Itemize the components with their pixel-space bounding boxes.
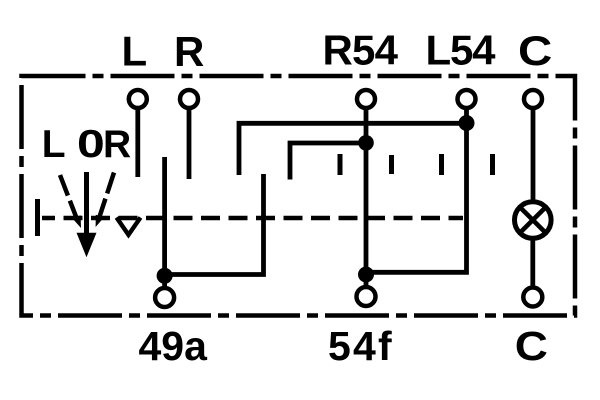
terminal R: [180, 90, 198, 179]
lever arrow R (dashed diagonal): [96, 173, 114, 228]
contact tick 1: [338, 154, 343, 175]
svg-text:L54: L54: [426, 27, 497, 74]
junction dot 49a: [157, 268, 173, 284]
detent notch v: [117, 218, 141, 235]
wire bridge finger from L54 (horizontal y=123): [239, 123, 467, 175]
junction dot 54f: [358, 267, 374, 283]
terminal C (top) with stem to lamp: [524, 90, 542, 202]
terminal L54 with stem, corner to 54f: [366, 90, 476, 272]
svg-text:L: L: [42, 123, 66, 166]
terminal 49a riser wire: [162, 157, 167, 288]
svg-text:C: C: [515, 324, 548, 369]
slider end-stop bar: [35, 199, 40, 236]
svg-text:49a: 49a: [139, 323, 209, 369]
terminal R54 with stem to 54f: [357, 90, 375, 287]
lever arrow 0 (solid, down): [77, 172, 97, 257]
wire lamp to C bottom: [530, 238, 535, 287]
svg-text:R54: R54: [323, 27, 399, 74]
contact tick 3: [439, 154, 444, 175]
terminal C (bottom): [523, 288, 542, 307]
terminal 54f: [357, 287, 376, 306]
junction dot R54: [358, 135, 374, 151]
svg-text:54f: 54f: [328, 323, 394, 369]
svg-text:L: L: [122, 28, 148, 75]
svg-text:R: R: [174, 28, 204, 75]
lamp E1: [515, 202, 552, 239]
enclosure dash-dot border: [22, 76, 576, 316]
slider dashed line (movable contact): [42, 216, 463, 221]
contact tick 2: [389, 155, 394, 174]
wire bridge finger from R54 (horizontal y=143): [290, 143, 366, 180]
terminal 49a: [155, 288, 174, 307]
svg-text:C: C: [518, 28, 552, 75]
terminal L: [129, 90, 147, 177]
lever arrow L (dashed diagonal): [60, 175, 81, 228]
label L 0 R (lever positions): [42, 122, 131, 166]
wire 49a right branch: [165, 174, 264, 275]
contact tick 4: [490, 154, 495, 175]
svg-text:0: 0: [77, 122, 105, 166]
junction dot L54: [459, 115, 475, 131]
svg-text:R: R: [103, 123, 131, 166]
